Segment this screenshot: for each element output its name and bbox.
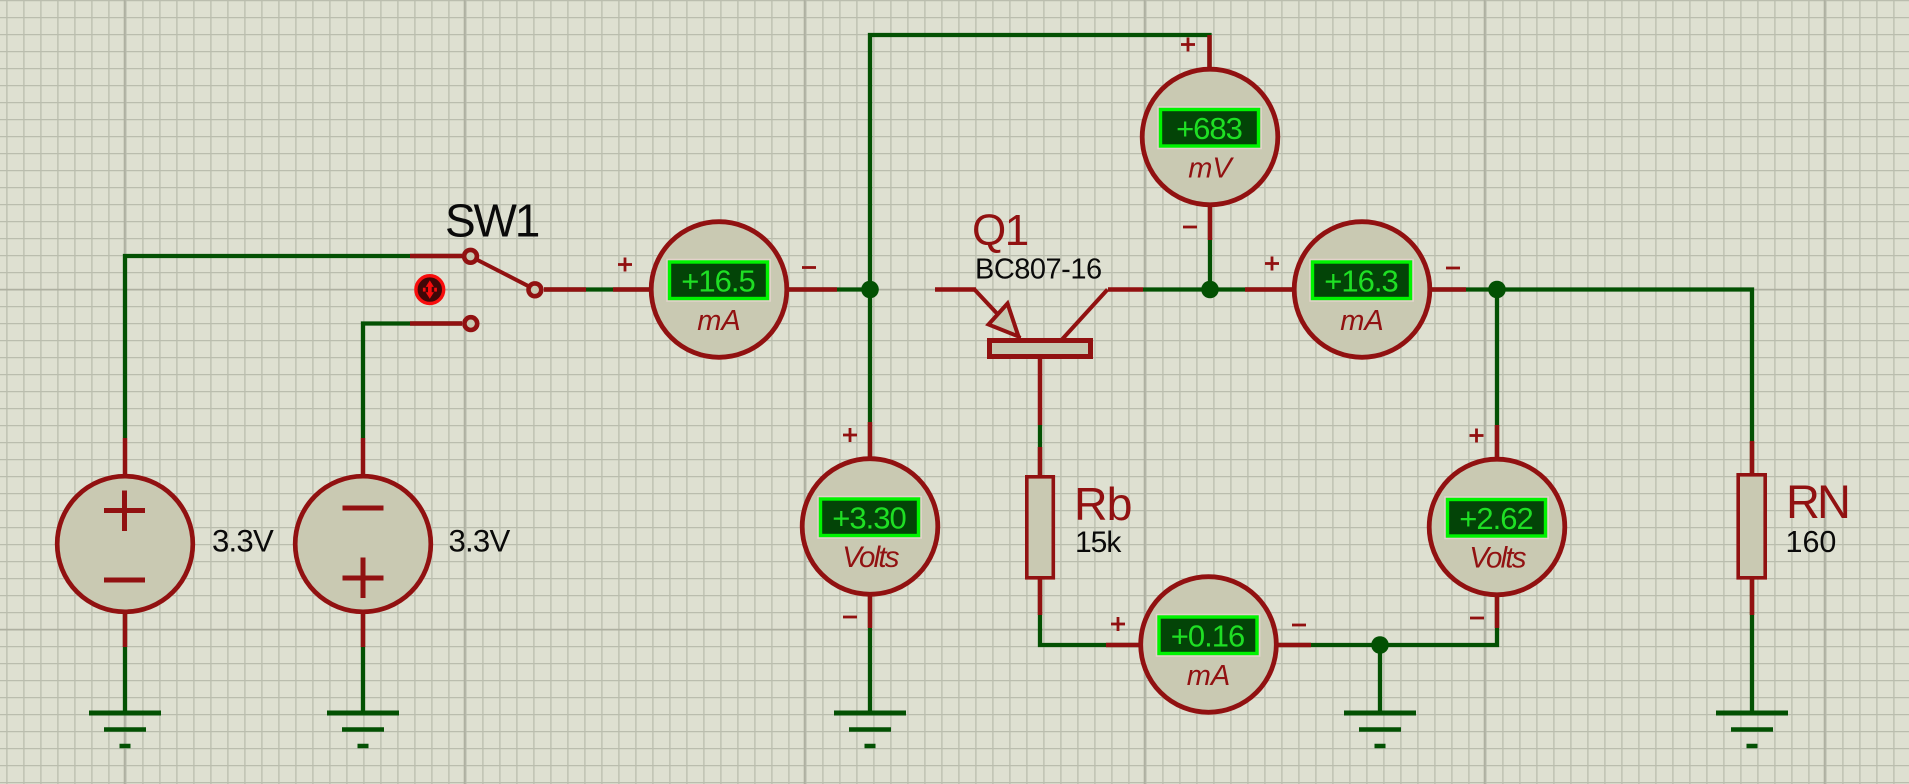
ammeter M6 (+0.16 mA) xyxy=(1141,577,1277,713)
pin B1 top xyxy=(123,438,128,476)
wire battery B1 top to SW1 terminal xyxy=(125,256,462,438)
wire M1 to node J1 xyxy=(787,287,870,291)
wire transistor Q1 collector to M3 through node J2 xyxy=(1143,287,1293,291)
svg-text:+0.16: +0.16 xyxy=(1171,619,1244,654)
pin M5 top xyxy=(1495,425,1500,459)
transistor Q1 emitter arrow xyxy=(989,304,1019,337)
plus label M6 xyxy=(1111,617,1125,631)
voltmeter M2 (+683 mV) xyxy=(1142,69,1278,205)
svg-text:mA: mA xyxy=(1340,305,1384,337)
minus label M6 xyxy=(1292,624,1306,627)
minus label M1 xyxy=(802,266,816,269)
wire node J1 up and across to voltmeter M2 xyxy=(870,35,1210,290)
pin M6 left xyxy=(1106,643,1140,648)
svg-text:SW1: SW1 xyxy=(445,195,539,247)
wire M5 bottom to node J4 xyxy=(1380,595,1497,645)
svg-text:Volts: Volts xyxy=(842,541,900,574)
wire M4 bottom to ground xyxy=(868,595,872,713)
svg-text:BC807-16: BC807-16 xyxy=(975,254,1102,286)
svg-text:Q1: Q1 xyxy=(972,206,1028,255)
pin Q1 collector lead xyxy=(1108,287,1143,292)
pin M6 right xyxy=(1277,643,1311,648)
transistor Q1 emitter line xyxy=(974,289,1020,338)
wire node J4 down to ground xyxy=(1378,645,1382,713)
switch SW1 terminal 2 xyxy=(464,317,477,330)
wire battery B2 bottom to ground xyxy=(361,613,365,713)
pin RN top xyxy=(1750,441,1755,474)
pin B2 bottom xyxy=(361,612,366,647)
battery B2 (3.3V cell) xyxy=(295,476,431,612)
svg-text:RN: RN xyxy=(1786,475,1848,528)
pin M1 right xyxy=(787,287,837,292)
pin SW1 pole lead xyxy=(544,287,586,292)
pin M2 top xyxy=(1207,35,1212,69)
svg-text:Volts: Volts xyxy=(1469,542,1527,575)
wire M2 bottom to node J2 xyxy=(1208,205,1212,290)
pin RN bottom xyxy=(1750,578,1755,615)
switch SW1 terminal 1 xyxy=(464,250,477,263)
switch SW1 lever xyxy=(478,260,529,286)
wire resistor Rb to M6 xyxy=(1040,425,1140,645)
wire node J1 down to voltmeter M4 xyxy=(868,290,872,460)
resistor RN body xyxy=(1738,475,1765,578)
wire battery B1 bottom to ground xyxy=(123,613,127,713)
ammeter M3 (+16.3 mA) xyxy=(1294,222,1430,358)
wire node J4 to ammeter M6 xyxy=(1140,643,1380,647)
wire node J3 to resistor RN xyxy=(1497,290,1752,474)
plus label M2 xyxy=(1181,38,1195,52)
ground under node J4 xyxy=(1344,713,1416,746)
svg-text:+683: +683 xyxy=(1176,111,1242,146)
pin SW1 terminal 2 lead xyxy=(410,321,462,326)
svg-text:+16.3: +16.3 xyxy=(1324,264,1397,299)
node J1 junction xyxy=(861,281,879,299)
svg-text:+2.62: +2.62 xyxy=(1459,501,1532,536)
resistor Rb body xyxy=(1027,477,1054,578)
minus label M5 xyxy=(1470,617,1484,620)
svg-text:Rb: Rb xyxy=(1074,478,1131,530)
node J3 junction xyxy=(1488,281,1506,299)
svg-text:mA: mA xyxy=(697,305,741,337)
transistor Q1 collector line xyxy=(1062,290,1108,341)
wire battery B2 top to SW1 terminal xyxy=(363,324,462,439)
transistor Q1 base bar xyxy=(990,341,1091,357)
voltmeter M5 (+2.62 Volts) xyxy=(1429,459,1565,595)
svg-text:160: 160 xyxy=(1786,525,1837,559)
pin M3 left xyxy=(1245,287,1293,292)
pin Q1 base lead xyxy=(1038,358,1043,425)
minus label M4 xyxy=(843,616,857,619)
minus label M2 xyxy=(1183,226,1197,229)
pin Q1 emitter lead xyxy=(935,287,976,292)
ground under battery B2 xyxy=(327,713,399,746)
pin M1 left xyxy=(613,287,651,292)
svg-text:mA: mA xyxy=(1187,660,1231,692)
plus label M4 xyxy=(843,428,857,442)
pin Rb bottom xyxy=(1038,578,1043,615)
plus label M5 xyxy=(1470,429,1484,443)
plus label M1 xyxy=(618,258,632,272)
ammeter M1 (+16.5 mA) xyxy=(651,222,787,358)
svg-text:+16.5: +16.5 xyxy=(681,264,754,299)
voltmeter M4 (+3.30 Volts) xyxy=(802,459,938,595)
battery B1 (3.3V cell) xyxy=(57,476,193,612)
ground under voltmeter M4 xyxy=(834,713,906,746)
pin M4 bottom xyxy=(868,595,873,628)
svg-text:+3.30: +3.30 xyxy=(832,501,906,536)
wire node J3 down to voltmeter M5 xyxy=(1495,290,1499,460)
pin M5 bottom xyxy=(1495,595,1500,628)
svg-text:3.3V: 3.3V xyxy=(449,524,511,559)
switch SW1 toggle actuator xyxy=(416,276,444,304)
svg-text:15k: 15k xyxy=(1075,526,1122,559)
wire M3 to node J3 xyxy=(1432,287,1497,291)
node J4 junction xyxy=(1371,636,1389,654)
pin M3 right xyxy=(1432,287,1466,292)
wire SW1 pole to ammeter M1 xyxy=(544,287,651,291)
pin B2 top xyxy=(361,438,366,476)
node J2 junction xyxy=(1201,281,1219,299)
svg-text:3.3V: 3.3V xyxy=(212,524,274,559)
pin SW1 terminal 1 lead xyxy=(410,254,462,259)
ground under battery B1 xyxy=(89,713,161,746)
wire RN bottom to ground xyxy=(1750,579,1754,713)
plus label M3 xyxy=(1265,257,1279,271)
svg-text:mV: mV xyxy=(1188,153,1234,185)
pin M2 bottom xyxy=(1208,205,1213,240)
switch SW1 pole terminal xyxy=(529,283,542,296)
ground under resistor RN xyxy=(1716,713,1788,746)
minus label M3 xyxy=(1446,267,1460,270)
pin Rb top xyxy=(1038,447,1043,476)
pin M4 top xyxy=(868,422,873,459)
pin B1 bottom xyxy=(123,612,128,647)
